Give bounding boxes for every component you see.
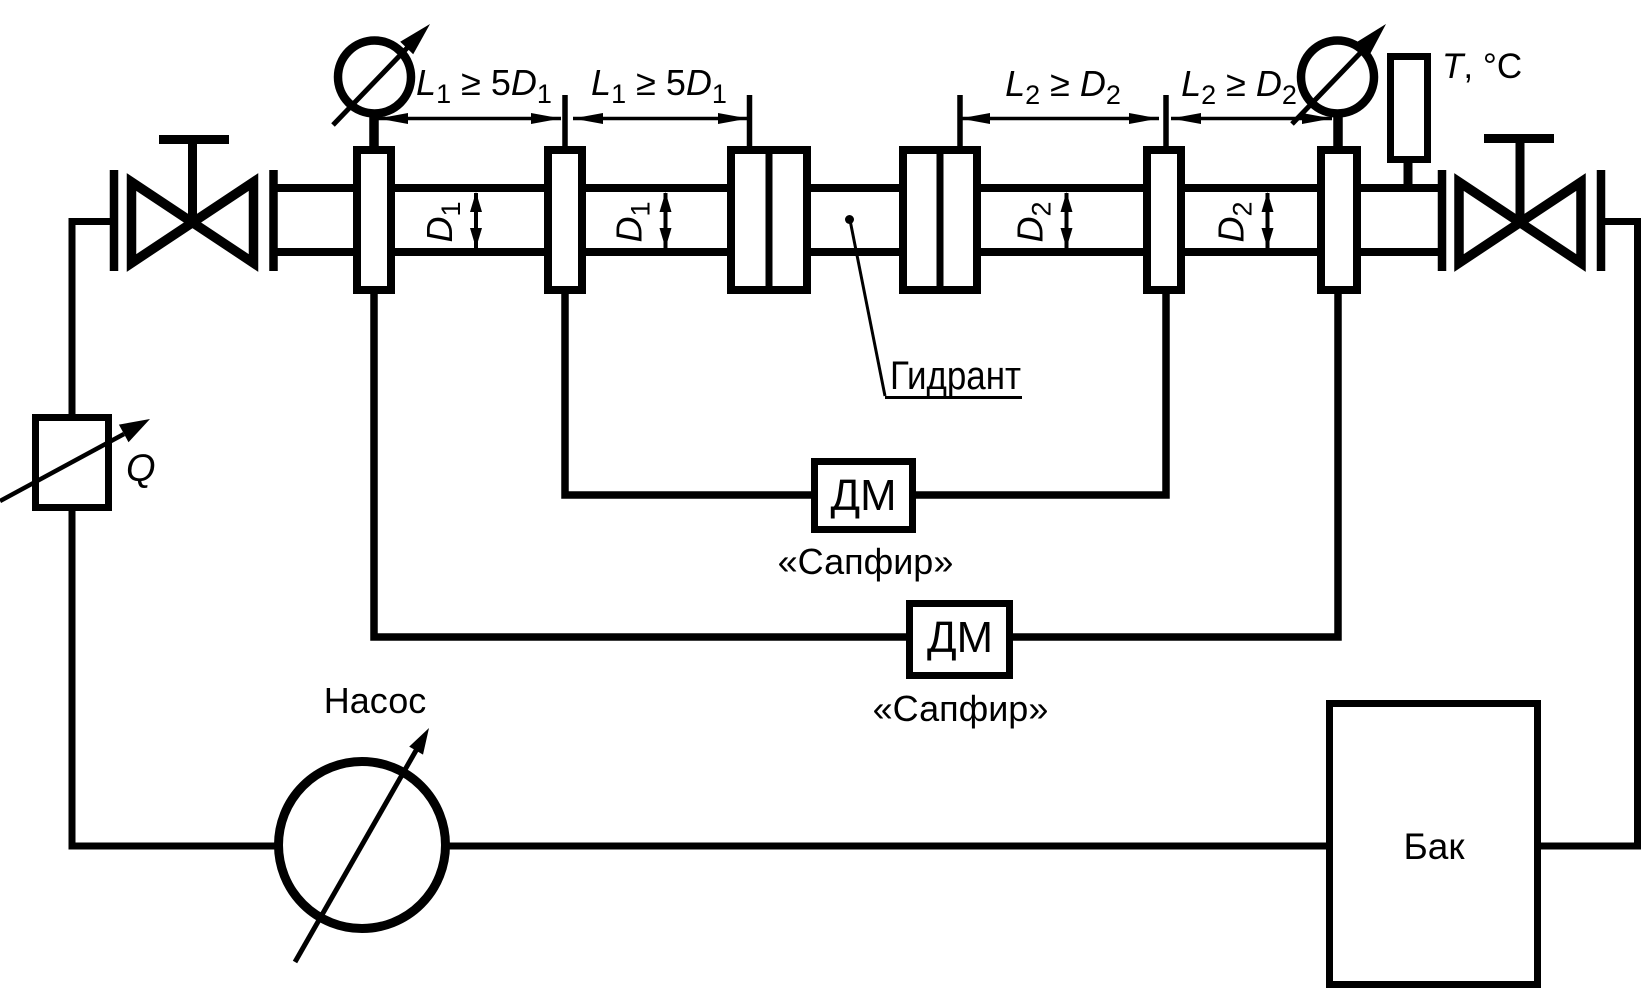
divider of flow nozzle block 2 [937, 148, 944, 292]
wire: left loop (valve 1 to Q regulator to pump line) [72, 222, 114, 461]
wire: hydrant pointer line [850, 220, 885, 396]
tank body [1330, 704, 1538, 985]
pump body [279, 762, 446, 929]
wire: main pipe top line [274, 184, 1442, 192]
wire: upper differential-pressure impulse loop [565, 292, 1166, 495]
orifice block 3 [1147, 150, 1181, 290]
valve V2 handle bar [1484, 134, 1554, 143]
wire: stem of pressure gauge 1 [369, 110, 379, 150]
flow nozzle block 1 (double) [731, 150, 807, 290]
svg-text:ДМ: ДМ [831, 471, 897, 520]
valve V1 handle bar [159, 135, 229, 144]
divider of flow nozzle block 1 [766, 148, 773, 292]
valve V1 right flange [269, 170, 278, 271]
svg-text:T, °C: T, °C [1442, 47, 1522, 86]
valve V1 handle stem [188, 139, 197, 223]
extension tick above nozzle block 2 [957, 95, 963, 148]
dimension line 2 [573, 117, 748, 121]
valve V2 body right triangle [1520, 182, 1581, 263]
pressure gauge 1 body [338, 41, 411, 114]
wire: main pipe bottom line [274, 248, 1442, 256]
diameter arrow D2 (first) [1065, 193, 1069, 249]
valve V2 handle stem [1516, 139, 1525, 223]
orifice block 1 [357, 150, 391, 290]
svg-text:Насос: Насос [324, 680, 426, 721]
valve V1 left flange [110, 170, 119, 271]
svg-text:Гидрант: Гидрант [890, 354, 1021, 398]
valve V1 body right triangle [193, 182, 254, 263]
svg-text:Q: Q [126, 448, 156, 490]
svg-text:ДМ: ДМ [927, 613, 993, 662]
pump arrow [295, 747, 418, 962]
wire: right loop (valve 2 down to tank) [1530, 222, 1638, 847]
valve V2 left flange [1438, 170, 1447, 271]
svg-text:L2 ≥ D2: L2 ≥ D2 [1005, 63, 1121, 110]
wire: lower differential-pressure impulse loop [374, 292, 1338, 637]
svg-text:«Сапфир»: «Сапфир» [873, 688, 1049, 729]
valve V2 right flange [1597, 170, 1606, 271]
dimension line 3 [960, 117, 1159, 121]
label Гидрант underline [885, 396, 1022, 399]
valve V1 body left triangle [132, 182, 193, 263]
node: hydrant pointer dot [845, 215, 854, 224]
orifice block 2 [548, 150, 582, 290]
diameter arrow D2 (second) [1266, 193, 1270, 249]
diameter arrow D1 (second) [664, 193, 668, 249]
extension tick above nozzle block 1 [747, 95, 753, 148]
svg-text:Бак: Бак [1403, 826, 1465, 867]
svg-text:L2 ≥ D2: L2 ≥ D2 [1181, 63, 1297, 110]
flow nozzle block 2 (double) [903, 150, 977, 290]
valve V2 body left triangle [1459, 182, 1520, 263]
dimension line 1 [376, 117, 561, 121]
extension tick above block 2 [562, 95, 568, 148]
diameter arrow D1 (first) [474, 193, 478, 249]
dimension line 4 [1171, 117, 1332, 121]
extension tick above block 3 [1163, 95, 1169, 148]
flow regulator Q body [36, 418, 109, 508]
thermometer body [1391, 57, 1428, 160]
flow regulator Q arrow [0, 434, 124, 501]
ДМ transducer 2 body [910, 604, 1010, 676]
orifice block 4 [1321, 150, 1357, 290]
pressure gauge 1 arrow [333, 46, 409, 125]
wire: stem of thermometer [1404, 160, 1413, 190]
pressure gauge 2 arrow [1292, 45, 1368, 124]
wire: stem of pressure gauge 2 [1333, 110, 1343, 150]
pressure gauge 2 body [1301, 41, 1374, 114]
ДМ transducer 1 body [815, 462, 913, 530]
svg-text:«Сапфир»: «Сапфир» [778, 541, 954, 582]
